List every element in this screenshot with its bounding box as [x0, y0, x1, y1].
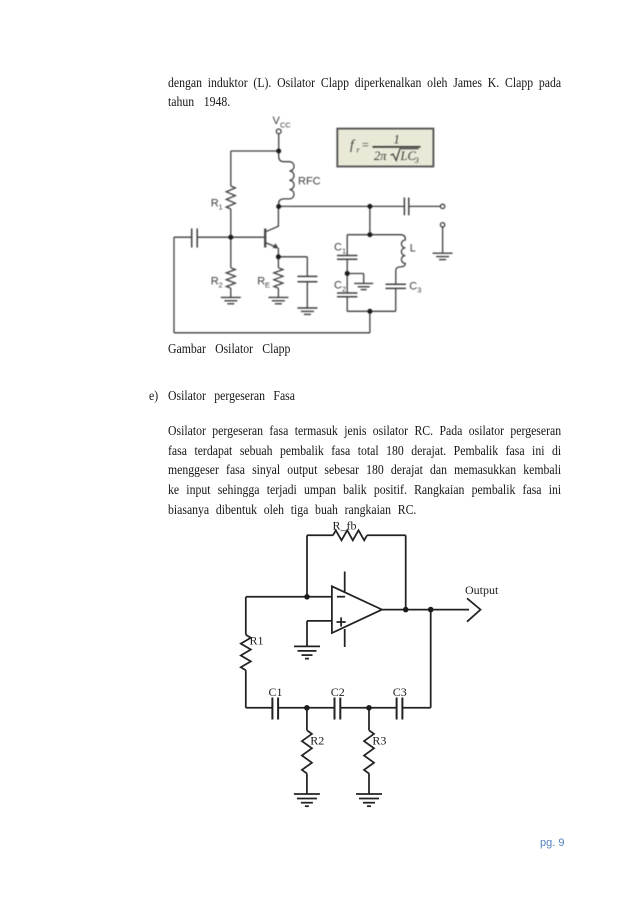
svg-text:R1: R1 — [250, 634, 264, 648]
svg-text:3: 3 — [417, 286, 421, 295]
svg-text:R_fb: R_fb — [333, 519, 357, 533]
svg-text:C3: C3 — [393, 685, 407, 699]
svg-text:R3: R3 — [372, 733, 386, 747]
svg-text:=: = — [362, 138, 369, 152]
svg-text:R2: R2 — [310, 733, 324, 747]
svg-text:CC: CC — [280, 121, 291, 130]
svg-text:1: 1 — [342, 247, 346, 256]
svg-text:C1: C1 — [269, 685, 283, 699]
svg-text:RFC: RFC — [298, 176, 321, 188]
svg-text:1: 1 — [219, 203, 223, 212]
svg-text:C: C — [334, 242, 342, 254]
svg-text:C2: C2 — [331, 685, 345, 699]
svg-text:C: C — [409, 281, 417, 293]
svg-text:2: 2 — [342, 285, 346, 294]
svg-text:E: E — [265, 280, 270, 289]
svg-text:3: 3 — [414, 156, 419, 165]
svg-text:2π: 2π — [374, 149, 387, 163]
svg-text:C: C — [334, 280, 342, 292]
svg-text:L: L — [410, 242, 416, 254]
svg-text:2: 2 — [219, 280, 223, 289]
svg-text:Output: Output — [465, 583, 499, 597]
svg-text:1: 1 — [394, 133, 400, 147]
